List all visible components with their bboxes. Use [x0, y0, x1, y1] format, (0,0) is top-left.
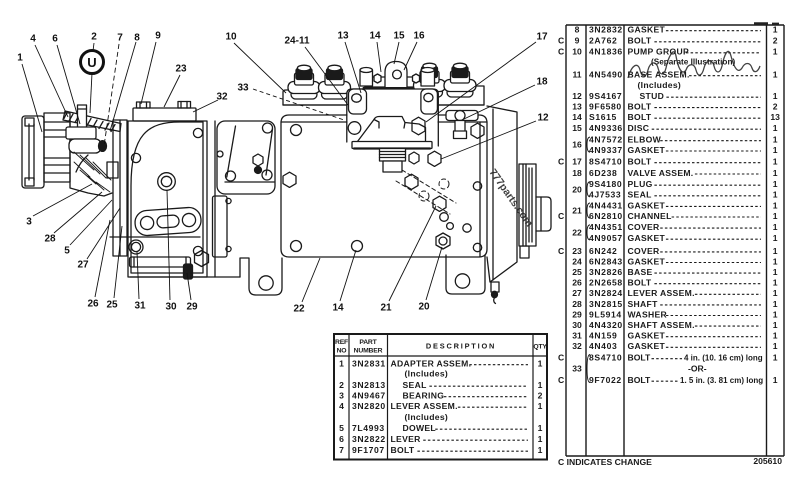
bottom step and left lug	[240, 258, 282, 295]
right parts table	[558, 25, 784, 456]
svg-text:1: 1	[773, 299, 778, 309]
svg-text:PUMP GROUP: PUMP GROUP	[628, 47, 690, 57]
svg-text:GASKET: GASKET	[628, 256, 666, 266]
svg-text:24: 24	[572, 256, 582, 266]
svg-text:2: 2	[773, 36, 778, 46]
svg-text:9F6580: 9F6580	[589, 102, 622, 112]
svg-text:27: 27	[572, 288, 582, 298]
svg-text:6N2810: 6N2810	[589, 211, 623, 221]
svg-text:18: 18	[536, 77, 548, 88]
callout 27	[77, 208, 120, 271]
elbow fitting (item 18 target)	[446, 111, 478, 139]
svg-text:3N2822: 3N2822	[352, 434, 386, 444]
svg-text:4N9057: 4N9057	[589, 233, 623, 243]
svg-text:32: 32	[216, 92, 228, 103]
svg-text:4N9336: 4N9336	[589, 123, 623, 133]
svg-text:1: 1	[773, 309, 778, 319]
lifting eye (item 15)	[385, 62, 407, 91]
svg-text:1: 1	[339, 359, 344, 369]
svg-text:26: 26	[87, 299, 99, 310]
svg-text:205610: 205610	[753, 456, 782, 466]
svg-text:LEVER: LEVER	[391, 434, 422, 444]
callout 7	[104, 33, 123, 147]
svg-text:6N2843: 6N2843	[589, 256, 623, 266]
svg-text:NO: NO	[337, 348, 347, 355]
callout 20	[418, 247, 442, 313]
svg-text:6: 6	[339, 434, 344, 444]
svg-text:30: 30	[572, 320, 582, 330]
face corner bolt holes	[291, 125, 482, 252]
svg-text:BOLT: BOLT	[391, 445, 415, 455]
svg-text:1: 1	[773, 222, 778, 232]
svg-text:C: C	[558, 353, 564, 363]
svg-text:4N7572: 4N7572	[589, 135, 623, 145]
svg-text:C: C	[558, 36, 564, 46]
svg-text:GASKET: GASKET	[628, 200, 666, 210]
svg-text:1: 1	[773, 25, 778, 35]
svg-text:1: 1	[773, 135, 778, 145]
svg-text:22: 22	[572, 228, 582, 238]
svg-text:1: 1	[773, 211, 778, 221]
svg-text:BOLT: BOLT	[628, 353, 652, 363]
svg-text:1: 1	[773, 157, 778, 167]
svg-text:29: 29	[572, 309, 582, 319]
svg-text:PLUG: PLUG	[628, 179, 653, 189]
main body face	[281, 115, 487, 257]
svg-text:CHANNEL: CHANNEL	[628, 211, 672, 221]
callout 14	[369, 31, 381, 73]
svg-text:7L4993: 7L4993	[352, 423, 385, 433]
svg-text:4N4351: 4N4351	[589, 222, 623, 232]
svg-text:32: 32	[572, 341, 582, 351]
svg-text:17: 17	[572, 157, 582, 167]
svg-text:1: 1	[773, 278, 778, 288]
hex bolt right of rod (item 26 target)	[195, 251, 209, 267]
svg-text:DOWEL: DOWEL	[403, 423, 436, 433]
svg-text:1: 1	[538, 445, 543, 455]
svg-text:1: 1	[538, 380, 543, 390]
svg-text:C: C	[558, 47, 564, 57]
drain valve	[491, 282, 499, 304]
right side panel	[487, 106, 529, 282]
svg-text:4N9337: 4N9337	[589, 145, 623, 155]
svg-text:2: 2	[538, 391, 543, 401]
svg-text:1: 1	[773, 288, 778, 298]
svg-text:PART: PART	[359, 339, 377, 346]
svg-text:30: 30	[165, 302, 177, 313]
svg-text:1: 1	[773, 179, 778, 189]
svg-text:1: 1	[773, 123, 778, 133]
svg-text:8S4710: 8S4710	[589, 353, 622, 363]
svg-text:8: 8	[575, 25, 580, 35]
svg-text:BASE: BASE	[628, 267, 653, 277]
svg-text:23: 23	[572, 246, 582, 256]
svg-text:8S4710: 8S4710	[589, 157, 622, 167]
svg-text:3N2824: 3N2824	[589, 288, 623, 298]
svg-text:11: 11	[572, 70, 581, 80]
callout 1	[17, 53, 42, 133]
svg-text:GASKET: GASKET	[628, 233, 666, 243]
svg-text:21: 21	[572, 206, 582, 216]
svg-text:2: 2	[91, 32, 97, 43]
callout 13	[337, 31, 361, 94]
svg-text:9L5914: 9L5914	[589, 309, 622, 319]
svg-text:4N9467: 4N9467	[352, 391, 386, 401]
svg-text:1: 1	[773, 200, 778, 210]
cutaway hatch below lever	[74, 152, 111, 192]
svg-text:7: 7	[117, 33, 123, 44]
svg-text:4N403: 4N403	[589, 341, 617, 351]
svg-text:(Includes): (Includes)	[405, 412, 449, 422]
svg-text:LEVER ASSEM.: LEVER ASSEM.	[628, 288, 695, 298]
svg-text:26: 26	[572, 278, 582, 288]
svg-text:12: 12	[537, 113, 549, 124]
svg-text:3N2815: 3N2815	[589, 299, 623, 309]
svg-text:23: 23	[175, 64, 187, 75]
svg-text:20: 20	[572, 184, 582, 194]
svg-text:U: U	[87, 55, 96, 70]
svg-text:21: 21	[380, 303, 392, 314]
callout 18	[464, 77, 548, 120]
svg-text:4: 4	[30, 34, 36, 45]
svg-text:1: 1	[773, 168, 778, 178]
handwritten scribble watermark	[628, 51, 760, 78]
svg-text:27: 27	[77, 260, 89, 271]
svg-text:33: 33	[572, 364, 582, 374]
mid housing corner bolts	[129, 128, 203, 255]
callout 24-11	[284, 36, 348, 106]
svg-text:COVER: COVER	[628, 222, 661, 232]
svg-text:33: 33	[237, 83, 249, 94]
svg-text:31: 31	[572, 331, 582, 341]
svg-text:3N2832: 3N2832	[589, 25, 623, 35]
svg-text:C INDICATES CHANGE: C INDICATES CHANGE	[558, 457, 652, 467]
scan smudge top right	[754, 22, 779, 25]
adapter end cap (item 1)	[22, 116, 44, 188]
svg-text:1. 5 in. (3. 81 cm) long: 1. 5 in. (3. 81 cm) long	[680, 376, 763, 385]
svg-text:REF: REF	[335, 339, 348, 346]
cover mount leg left	[349, 89, 367, 114]
adapter rear column	[107, 120, 127, 256]
callout 22	[293, 258, 320, 315]
svg-text:(Includes): (Includes)	[638, 80, 682, 90]
lever stud (item 7/8 bolt area)	[78, 105, 87, 129]
callout 4	[30, 34, 68, 118]
svg-text:3N2826: 3N2826	[589, 267, 623, 277]
callout 9	[141, 31, 161, 105]
svg-text:SHAFT: SHAFT	[628, 299, 659, 309]
callout 17	[426, 32, 548, 123]
svg-text:5: 5	[64, 246, 70, 257]
svg-text:1: 1	[17, 53, 23, 64]
callout 6	[52, 34, 80, 125]
svg-text:SHAFT ASSEM.: SHAFT ASSEM.	[628, 320, 695, 330]
callout 12	[441, 113, 549, 160]
svg-text:6N242: 6N242	[589, 246, 617, 256]
svg-text:C: C	[558, 211, 564, 221]
svg-text:10: 10	[572, 47, 582, 57]
svg-text:3N2820: 3N2820	[352, 401, 386, 411]
svg-text:6: 6	[52, 34, 58, 45]
svg-text:14: 14	[572, 112, 582, 122]
svg-text:9S4167: 9S4167	[589, 91, 622, 101]
svg-text:13: 13	[770, 112, 780, 122]
svg-text:1: 1	[773, 331, 778, 341]
small stud right of eye	[413, 68, 435, 87]
cover bottom flange	[352, 142, 432, 149]
svg-text:1: 1	[773, 267, 778, 277]
svg-text:DISC: DISC	[628, 123, 650, 133]
svg-text:LEVER ASSEM.: LEVER ASSEM.	[391, 401, 458, 411]
svg-text:1: 1	[773, 190, 778, 200]
svg-text:STUD: STUD	[640, 91, 665, 101]
svg-text:S1615: S1615	[589, 112, 617, 122]
svg-text:1: 1	[773, 91, 778, 101]
svg-text:28: 28	[572, 299, 582, 309]
svg-text:C: C	[558, 157, 564, 167]
lever link rod (item 27)	[130, 257, 241, 277]
svg-text:VALVE ASSEM.: VALVE ASSEM.	[628, 168, 694, 178]
callout 3	[26, 184, 92, 228]
svg-text:1: 1	[773, 375, 778, 385]
svg-text:1: 1	[538, 359, 543, 369]
svg-text:BOLT: BOLT	[628, 375, 652, 385]
svg-text:C: C	[558, 375, 564, 385]
svg-text:(Includes): (Includes)	[405, 369, 449, 379]
svg-text:14: 14	[369, 31, 381, 42]
callout 33	[237, 83, 344, 121]
svg-text:GASKET: GASKET	[628, 341, 666, 351]
callout 8	[110, 33, 140, 132]
callout 10	[225, 32, 286, 94]
svg-text:DESCRIPTION: DESCRIPTION	[426, 342, 496, 351]
svg-text:1: 1	[538, 434, 543, 444]
centre plug boss (item 30 target)	[158, 173, 176, 191]
svg-text:4N4431: 4N4431	[589, 200, 623, 210]
svg-text:24-11: 24-11	[284, 36, 309, 47]
svg-text:16: 16	[572, 140, 582, 150]
svg-text:25: 25	[106, 300, 118, 311]
svg-text:25: 25	[572, 267, 582, 277]
cover mount leg right	[421, 89, 438, 114]
adapter housing block (item 1)	[63, 111, 121, 196]
svg-text:4J7533: 4J7533	[589, 190, 621, 200]
svg-text:GASKET: GASKET	[628, 145, 666, 155]
svg-text:2N2658: 2N2658	[589, 278, 623, 288]
callout 31	[134, 252, 146, 312]
svg-text:31: 31	[134, 301, 146, 312]
svg-text:SEAL: SEAL	[403, 380, 427, 390]
lever clamp bar	[66, 127, 96, 139]
svg-text:4: 4	[339, 401, 344, 411]
svg-text:22: 22	[293, 304, 305, 315]
svg-text:9: 9	[155, 31, 161, 42]
svg-text:ADAPTER ASSEM.: ADAPTER ASSEM.	[391, 359, 472, 369]
svg-text:15: 15	[393, 31, 405, 42]
mid housing body	[128, 121, 207, 277]
svg-text:4N159: 4N159	[589, 331, 617, 341]
mid housing top plate with gasket (items 32/23)	[133, 102, 196, 122]
svg-text:COVER: COVER	[628, 246, 661, 256]
svg-text:14: 14	[332, 303, 344, 314]
svg-text:6D238: 6D238	[589, 168, 617, 178]
threaded adjuster stub (item 12 area)	[380, 149, 406, 173]
circled symbol for callout 2	[81, 51, 104, 74]
svg-text:4N4320: 4N4320	[589, 320, 623, 330]
hidden channel (dashed, item 21)	[396, 170, 456, 214]
svg-text:9F7022: 9F7022	[589, 375, 622, 385]
callout 15	[393, 31, 405, 65]
svg-text:GASKET: GASKET	[628, 331, 666, 341]
small hex right of stub	[409, 152, 419, 164]
svg-text:-OR-: -OR-	[688, 364, 707, 374]
svg-text:13: 13	[337, 31, 349, 42]
callout 21	[380, 206, 436, 314]
svg-text:4N1836: 4N1836	[589, 47, 623, 57]
svg-text:GASKET: GASKET	[628, 25, 666, 35]
svg-text:1: 1	[773, 233, 778, 243]
svg-text:NUMBER: NUMBER	[354, 348, 383, 355]
narrow side plate below bracket	[213, 196, 232, 257]
callout 29	[186, 273, 198, 313]
small trailing circles	[440, 213, 454, 230]
svg-text:2: 2	[773, 102, 778, 112]
svg-text:20: 20	[418, 302, 430, 313]
svg-text:1: 1	[773, 145, 778, 155]
callout 25	[106, 226, 122, 311]
svg-text:1: 1	[538, 401, 543, 411]
callout 23	[164, 64, 187, 108]
svg-text:13: 13	[572, 102, 582, 112]
svg-text:1: 1	[773, 246, 778, 256]
side bracket plate	[217, 121, 275, 194]
svg-text:QTY: QTY	[533, 344, 547, 351]
svg-text:2A762: 2A762	[589, 36, 617, 46]
svg-text:BOLT: BOLT	[628, 278, 652, 288]
svg-text:4N5490: 4N5490	[589, 70, 623, 80]
housing side seam	[214, 121, 216, 277]
svg-text:28: 28	[44, 234, 56, 245]
svg-text:1: 1	[773, 47, 778, 57]
svg-text:WASHER: WASHER	[628, 309, 668, 319]
lower ledge line	[110, 236, 200, 238]
svg-text:BOLT: BOLT	[628, 102, 652, 112]
svg-text:3: 3	[339, 391, 344, 401]
callout 2	[90, 32, 97, 114]
clamp bar	[364, 77, 428, 88]
svg-text:12: 12	[572, 91, 582, 101]
svg-text:1: 1	[538, 423, 543, 433]
svg-text:16: 16	[413, 31, 425, 42]
svg-text:C: C	[558, 246, 564, 256]
svg-text:10: 10	[225, 32, 237, 43]
small stud left of eye	[360, 68, 381, 87]
injector tower B	[319, 65, 351, 99]
svg-text:9: 9	[575, 36, 580, 46]
svg-text:BEARING: BEARING	[403, 391, 445, 401]
servo stack	[519, 164, 551, 246]
lever (item 6)	[69, 139, 107, 172]
injector tower A	[288, 65, 320, 99]
svg-text:29: 29	[186, 302, 198, 313]
lower parts table	[334, 334, 547, 460]
slotted cover plate (items 31/29)	[134, 207, 202, 237]
callout 26	[87, 220, 110, 310]
svg-text:3N2831: 3N2831	[352, 359, 386, 369]
svg-text:BOLT: BOLT	[628, 36, 652, 46]
svg-text:4 in. (10. 16 cm) long: 4 in. (10. 16 cm) long	[684, 354, 763, 363]
svg-text:1: 1	[773, 256, 778, 266]
callout 16	[404, 31, 425, 71]
callout 28	[44, 192, 102, 245]
callout 14	[332, 250, 356, 314]
svg-text:ELBOW: ELBOW	[628, 135, 662, 145]
svg-text:SEAL: SEAL	[628, 190, 652, 200]
svg-text:5: 5	[339, 423, 344, 433]
right mounting foot	[446, 255, 485, 294]
svg-text:8: 8	[134, 33, 140, 44]
svg-text:9F1707: 9F1707	[352, 445, 385, 455]
svg-text:1: 1	[773, 353, 778, 363]
face hex fittings	[283, 123, 484, 249]
callout 5	[64, 200, 112, 257]
svg-text:3N2813: 3N2813	[352, 380, 386, 390]
svg-text:18: 18	[572, 168, 582, 178]
top rail	[283, 84, 484, 105]
svg-text:9S4180: 9S4180	[589, 179, 622, 189]
callout 32	[193, 92, 228, 113]
svg-text:1: 1	[773, 70, 778, 80]
svg-text:BOLT: BOLT	[628, 112, 652, 122]
svg-text:17: 17	[536, 32, 548, 43]
adapter cylinder body	[44, 113, 70, 182]
svg-text:3: 3	[26, 217, 32, 228]
callout 30	[165, 190, 177, 313]
svg-text:1: 1	[773, 320, 778, 330]
svg-text:15: 15	[572, 123, 582, 133]
injector tower C	[414, 63, 446, 97]
svg-text:BOLT: BOLT	[628, 157, 652, 167]
svg-text:7: 7	[339, 445, 344, 455]
svg-text:2: 2	[339, 380, 344, 390]
injector tower D	[444, 63, 476, 97]
governor cover (item 10 group)	[348, 90, 438, 142]
svg-text:1: 1	[773, 341, 778, 351]
dark bolt (item 29 target)	[184, 264, 193, 279]
